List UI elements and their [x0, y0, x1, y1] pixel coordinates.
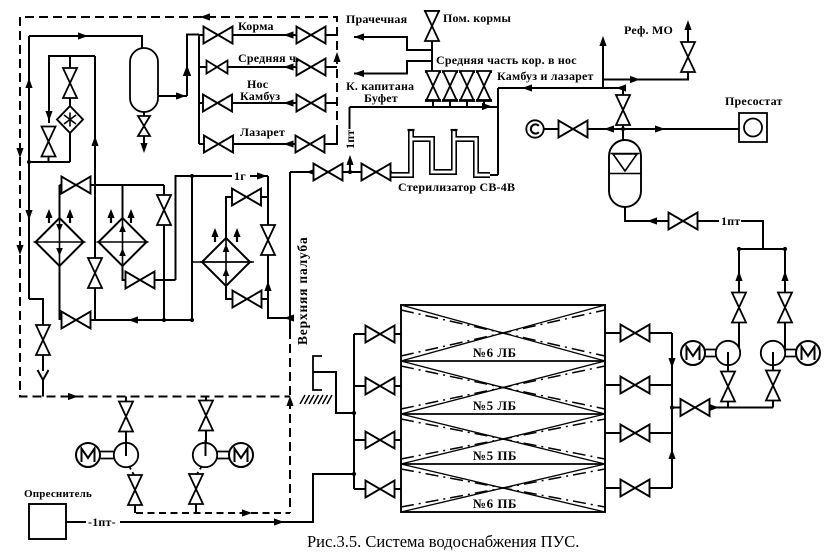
wire: riser x268	[267, 176, 269, 318]
valve row1 right	[297, 27, 326, 44]
row 4 Lazaret: wire	[199, 143, 296, 145]
arrow down on left dashed border	[16, 245, 23, 255]
svg-text:Стерилизатор СВ-4В: Стерилизатор СВ-4В	[398, 180, 515, 194]
wire: valve to Y-funnel	[42, 355, 44, 371]
presostat box	[739, 113, 767, 142]
tank compartment separators	[401, 361, 605, 464]
valve row4 right	[296, 136, 325, 153]
heat exchanger HX1	[34, 218, 86, 266]
wire: laundry line	[354, 37, 432, 50]
valve on riser x268	[261, 225, 275, 255]
svg-text:№5 ЛБ: №5 ЛБ	[473, 398, 517, 413]
svg-text:Средняя часть кор. в нос: Средняя часть кор. в нос	[436, 53, 577, 67]
svg-text:Рис.3.5. Система водоснабжени: Рис.3.5. Система водоснабжения ПУС.	[307, 532, 579, 551]
wire: drop x175 from 1g line	[176, 176, 193, 280]
motor B	[796, 341, 820, 365]
svg-text:Средняя ч.: Средняя ч.	[238, 51, 299, 65]
wire: valve to pump L	[125, 432, 127, 456]
valve bank 4	[476, 71, 492, 107]
wire: riser x268 elbow to upper deck line	[268, 299, 290, 318]
wire: riser to manifold top	[187, 35, 199, 97]
valve on ref MO line	[681, 42, 695, 72]
valve below pump B	[766, 371, 780, 401]
machinery space dashed boundary	[20, 17, 337, 397]
Y-funnel symbol	[38, 370, 49, 397]
valve row3 left	[203, 95, 232, 112]
wire: long vertical from frame right	[94, 56, 96, 320]
motor A	[681, 341, 705, 365]
tank right row3	[605, 425, 672, 442]
valve on line y172 east	[362, 164, 391, 181]
valve row2 left	[207, 61, 228, 74]
svg-text:Опреснитель: Опреснитель	[24, 488, 92, 500]
wire: valve to drain header	[48, 157, 50, 163]
wire: filter to drain header	[69, 133, 71, 162]
valve bank 3	[459, 71, 475, 107]
node: junction hydrophore riser	[621, 127, 625, 131]
wire: HX2 bottom line to drop	[155, 279, 176, 281]
valve on cross header	[62, 177, 91, 194]
compartment 1 diagonals	[401, 305, 605, 361]
valve on lower header y320	[62, 312, 91, 329]
node: 1g line left junction	[190, 174, 194, 178]
pump A	[716, 341, 740, 372]
svg-text:Буфет: Буфет	[364, 91, 398, 105]
wire: deck pipe to manifold	[313, 372, 354, 413]
vacuum gauge circle C	[526, 120, 543, 137]
wire: captain/buffet line	[354, 61, 432, 74]
wire: right tank manifold	[671, 333, 673, 488]
tank left row1	[354, 326, 401, 343]
compartment 4 diagonals	[401, 464, 605, 512]
wire: 1pt line with label	[698, 220, 720, 222]
valve row1 left	[204, 27, 233, 44]
wire: suction branch B	[784, 249, 786, 293]
svg-text:1г: 1г	[234, 169, 246, 183]
storage tank block	[401, 305, 605, 512]
label tank no5 LB	[468, 398, 528, 413]
compartment 2 diagonals	[401, 361, 605, 414]
wire: distribution manifold vertical	[198, 35, 200, 144]
tank left row3	[354, 432, 401, 449]
wire: valve A to pump A	[738, 323, 740, 349]
row 3 Nos/Kambuz: wire	[199, 102, 297, 104]
label tank no5 PB	[468, 448, 528, 463]
wire: HX1 bottom to lower header	[59, 266, 61, 320]
wire: suction tee	[739, 248, 785, 250]
shaft B	[785, 350, 796, 357]
valve on left frame branch	[42, 127, 56, 157]
svg-text:1пт: 1пт	[343, 130, 357, 149]
valve suction B	[778, 293, 792, 323]
wire: tank drain with down arrow	[143, 136, 145, 150]
tank right row4	[605, 480, 672, 497]
wire: dashed below pump L	[129, 466, 134, 475]
wire: HX3 crossline extension	[192, 261, 254, 263]
svg-text:-1пт-: -1пт-	[88, 515, 116, 529]
wire: pump suction bottom line	[710, 407, 774, 409]
valve suction A	[732, 293, 746, 323]
wire row2 to dashed border	[326, 66, 338, 68]
valve bank 2	[442, 71, 458, 107]
label tank no6 PB	[468, 496, 528, 511]
valve above pump R	[199, 401, 213, 431]
motor L	[76, 443, 100, 467]
valve on tank suction	[681, 399, 710, 416]
wire: sterilizer outlet riser	[490, 174, 498, 176]
svg-text:Верхняя палуба: Верхняя палуба	[295, 236, 310, 345]
node: corner y320 riser	[190, 318, 194, 322]
valve on hydrophore riser	[622, 88, 624, 96]
svg-text:1пт: 1пт	[721, 214, 740, 228]
svg-text:№6 ПБ: №6 ПБ	[473, 496, 517, 511]
shaft L	[101, 452, 115, 459]
wire: ref MO line	[603, 72, 688, 80]
filter (diamond with asterisk)	[57, 106, 83, 133]
wire: header down to HX2 top	[122, 185, 124, 218]
wire: dashed suction header branch L	[125, 397, 127, 403]
arrow right on bottom dashed border	[68, 393, 78, 400]
wire: collector drop to 1pt branch	[349, 107, 351, 129]
arrow up on right dashed border	[333, 52, 340, 62]
valve on presostat line	[559, 121, 588, 138]
row 1 Korma: wire	[199, 34, 297, 36]
tank right row2	[605, 377, 672, 394]
valve below pump R	[189, 474, 203, 504]
wire: left tank manifold	[353, 334, 355, 489]
valve on line y172 west	[314, 164, 343, 181]
wire: valve to pump R	[205, 431, 207, 456]
svg-text:Прачечная: Прачечная	[346, 12, 408, 26]
valve below pump A	[721, 372, 735, 402]
bilge valve	[36, 325, 50, 355]
deck gland bracket	[313, 356, 322, 390]
fat arrows above HX1	[45, 209, 52, 223]
wire: dashed below pump R	[197, 466, 202, 474]
wire: dashed suction header branch R	[205, 397, 207, 402]
node: junction left main / drain header	[27, 160, 31, 164]
wire: cross header y185	[60, 184, 165, 186]
shaft R	[217, 452, 230, 459]
pump B	[761, 341, 785, 371]
wire: desalinator outlet with 1pt label	[66, 521, 86, 523]
wire: drop x192 from 1g line	[191, 176, 193, 320]
deck hatch marks	[300, 395, 332, 404]
wire row3 to dashed border	[326, 102, 338, 104]
valve bank 1	[425, 71, 441, 107]
fat arrows above HX3	[211, 228, 218, 242]
wire row4 elbow to dashed border	[325, 134, 338, 144]
wire: line y172 to sterilizer	[290, 171, 392, 173]
wire: branch x164 with valve	[163, 185, 165, 320]
valve row4 left	[204, 136, 233, 153]
wire: HX3 bottom line with valve	[226, 286, 233, 299]
compartment 3 diagonals	[401, 414, 605, 464]
fat arrows above HX2	[107, 209, 114, 223]
wire: lower header y320	[91, 319, 193, 321]
tank left row4	[354, 481, 401, 498]
wire: upper deck dashed vertical	[289, 330, 291, 513]
wire: kambuz line to hydrophore riser	[498, 87, 623, 89]
svg-text:Реф. МО: Реф. МО	[624, 23, 673, 37]
motor R	[229, 443, 253, 467]
wire: header down to HX1 top	[59, 185, 61, 218]
svg-text:№6 ЛБ: №6 ЛБ	[473, 345, 517, 360]
hydrophore tank	[609, 140, 641, 207]
sterilizer SV-4V coil	[390, 130, 490, 175]
valve below gravity tank	[143, 112, 145, 117]
svg-text:Лазарет: Лазарет	[240, 125, 285, 139]
label tank no6 LB	[468, 345, 528, 360]
valve on center frame branch	[63, 68, 77, 98]
wire: jog left main to bilge valve	[29, 299, 43, 325]
valve on branch x164	[157, 195, 171, 225]
tank left row2	[354, 378, 401, 395]
node: junction 1pt branch	[348, 170, 352, 174]
tank right row1	[605, 325, 672, 342]
wire: dashed lower suction line	[136, 512, 290, 514]
wire+label: 1g line	[192, 175, 232, 177]
desalinator box	[29, 504, 66, 539]
arrow down on left dashed border	[16, 148, 23, 158]
wire: 1pt up branch with label	[349, 158, 351, 172]
pump L	[114, 443, 138, 467]
wire: riser to hydrophore tank	[622, 125, 624, 141]
wire: frame header	[49, 56, 95, 123]
valve above pump L	[119, 402, 133, 432]
svg-text:Пом. кормы: Пом. кормы	[443, 11, 512, 25]
wire: hydrophore bottom elbow	[625, 207, 669, 221]
valve on 1pt line	[669, 213, 698, 230]
svg-text:№5 ПБ: №5 ПБ	[473, 448, 517, 463]
row 2 Srednyaya: wire	[199, 66, 297, 68]
wire: ref MO up arrow	[687, 24, 689, 42]
gravity tank (capsule)	[130, 48, 158, 112]
heat exchanger HX3	[200, 238, 252, 286]
wire: riser to fore with arrow	[602, 40, 604, 88]
wire: tank outlet to riser	[158, 95, 187, 97]
valve on long vertical	[88, 258, 102, 288]
valve on HX2 bottom line	[126, 272, 155, 289]
svg-text:Пресостат: Пресостат	[725, 94, 783, 108]
wire: suction branch A	[738, 249, 740, 293]
shaft A	[706, 350, 717, 357]
heat exchanger HX2	[97, 218, 149, 266]
arrow on top dashed border	[200, 13, 210, 20]
deck valve Pom. kormy	[424, 10, 440, 12]
valve row3 right	[297, 95, 326, 112]
valve below pump L	[128, 475, 142, 505]
wire: bank collector	[350, 106, 499, 108]
wire: valve B to pump B	[784, 323, 786, 352]
wire: top feed line to gravity tank	[29, 36, 142, 48]
wire: upper deck solid vertical	[289, 172, 291, 330]
wire: valve to filter	[69, 98, 71, 106]
pump R	[193, 443, 217, 467]
wire: HX2 bottom elbow	[123, 266, 126, 280]
valve row2 right	[297, 59, 326, 76]
svg-text:Камбуз и лазарет: Камбуз и лазарет	[497, 69, 594, 83]
wire: drain header	[29, 161, 70, 163]
wire row1 to dashed border	[326, 34, 338, 36]
svg-text:Камбуз: Камбуз	[240, 89, 280, 103]
wire: left vertical main	[28, 36, 30, 299]
svg-text:Корма: Корма	[238, 19, 274, 33]
wire: center frame branch	[69, 56, 71, 68]
node: junction y320	[162, 318, 166, 322]
wire: presostat line	[588, 128, 740, 130]
wire: HX3 top line with valve	[226, 197, 232, 238]
wire: riser below deck valve	[431, 41, 433, 72]
wire: gauge to valve	[544, 128, 559, 130]
